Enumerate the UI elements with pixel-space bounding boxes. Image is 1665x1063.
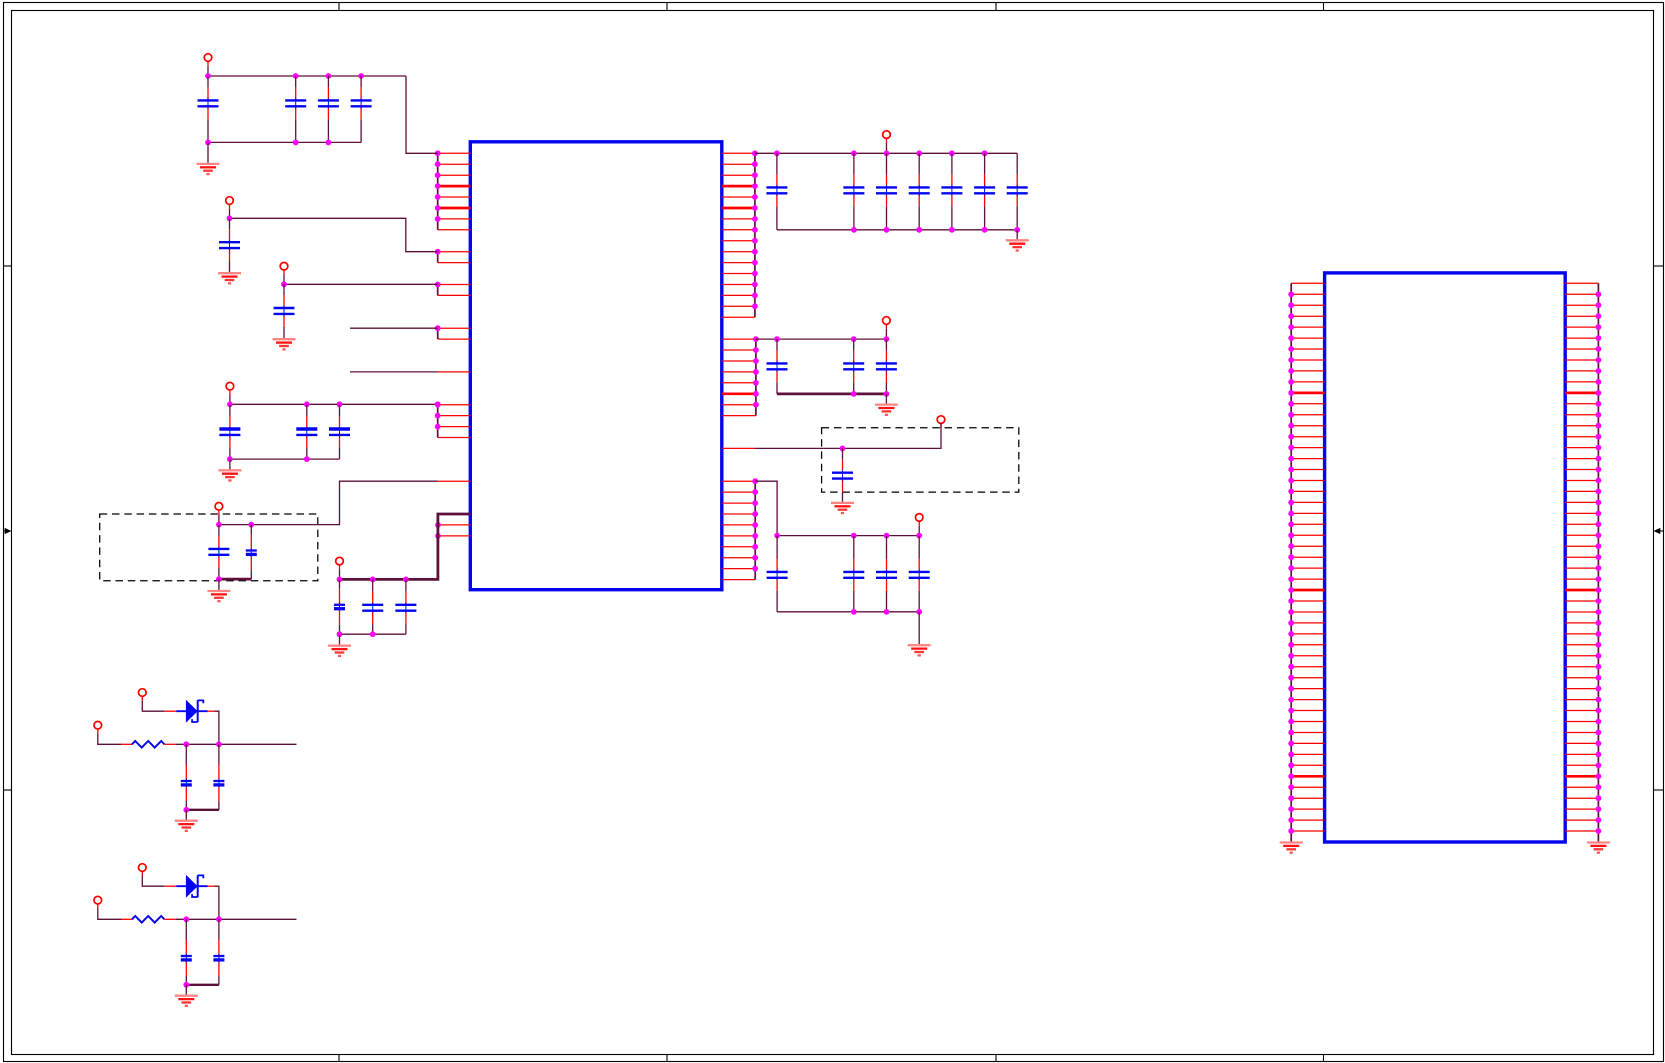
U1 left pin row20 [438, 371, 471, 373]
capacitor C30 [181, 744, 192, 810]
wire VDDA gnd rail [208, 141, 361, 143]
wire to ground [218, 579, 220, 591]
wire to ground [207, 142, 209, 164]
ground [218, 273, 241, 283]
ground [1587, 843, 1610, 853]
wire P6 to node [339, 569, 341, 579]
power symbol P13 [139, 864, 147, 876]
wire PVDD gnd rail [777, 611, 919, 613]
ground [218, 470, 241, 480]
ground [273, 339, 296, 349]
wire net AVDD2 [284, 283, 438, 285]
ground [197, 164, 220, 174]
capacitor C24 [876, 339, 897, 394]
wire net PVDD riser [755, 481, 919, 535]
capacitor C19 [941, 153, 962, 230]
ground [908, 645, 931, 655]
junctions out net [183, 916, 221, 922]
wire resistor feed [98, 909, 122, 920]
ground [1280, 843, 1303, 853]
U1 right pin group H rows17-24 [722, 339, 756, 416]
ground [1006, 240, 1029, 250]
capacitor C15 [766, 153, 787, 230]
U1 left pin group D rows16-17 [438, 328, 471, 339]
wire VDD18 gnd rail [777, 392, 886, 395]
junctions group F [435, 522, 441, 539]
junction AVDD1 [227, 215, 233, 221]
border arrow right [1654, 528, 1664, 534]
junction VFILT [840, 446, 846, 452]
U1 left pin group E rows23-26 [438, 405, 471, 438]
ground [175, 996, 198, 1006]
junctions VDDIO gnd rail [337, 631, 376, 637]
capacitor C33 [213, 919, 224, 985]
wire to ground [185, 985, 187, 996]
U2 right pin bus wire [1597, 283, 1599, 842]
junction group B [435, 249, 441, 255]
junctions DVDD rail [227, 401, 441, 407]
capacitor C7 [219, 404, 240, 459]
U2 left pins rows0-50 [1291, 283, 1324, 831]
dashed option box 1 [100, 514, 318, 581]
wire P7 to node [886, 143, 888, 153]
capacitor C2 [285, 76, 306, 142]
junctions U2 right [1596, 291, 1602, 834]
wire cap gnd rail [186, 984, 219, 986]
capacitor C18 [909, 153, 930, 230]
power symbol P6 [336, 557, 344, 569]
wire to ground [229, 459, 231, 470]
junctions group G [752, 150, 758, 309]
junctions VDDA gnd rail [205, 140, 331, 146]
wire net out [175, 743, 296, 745]
capacitor C21 [1007, 153, 1028, 230]
junctions group I [752, 478, 758, 571]
power symbol P10 [915, 514, 923, 526]
dashed option box 2 [822, 428, 1019, 492]
U1 right pin group G rows0-15 [722, 153, 755, 317]
wire VDDA to U1 pin row0 [406, 76, 438, 153]
capacitor C6 [274, 284, 295, 339]
wire P1 to node [207, 66, 209, 76]
junctions VCC rail [774, 150, 987, 156]
zener diode D1 [176, 700, 207, 723]
resistor R1 [132, 741, 164, 748]
capacitor C29 [909, 536, 930, 612]
wire to ground [1016, 230, 1018, 241]
wire anode feed [142, 701, 164, 711]
capacitor C13 [362, 579, 383, 634]
ground [175, 821, 198, 831]
wire anode feed [142, 876, 164, 886]
junction cap gnd [183, 807, 189, 813]
capacitor C11 [246, 525, 257, 580]
wire P4 to node [229, 395, 231, 405]
cathode lead [208, 885, 215, 887]
resistor R2 [132, 916, 164, 923]
junctions VDDIO [337, 577, 409, 583]
wire to ground [918, 612, 920, 645]
capacitor C23 [843, 339, 864, 394]
wire net VDDA top rail [208, 75, 406, 77]
capacitor C31 [213, 744, 224, 810]
capacitor C16 [843, 153, 864, 230]
wire P8 to node [885, 329, 887, 339]
junctions group H [753, 336, 759, 407]
wire P2 to node [229, 209, 231, 219]
ground [875, 405, 898, 415]
capacitor C25 [832, 448, 853, 503]
power symbol P3 [280, 262, 288, 274]
wire P3 to node [283, 275, 285, 285]
wire net VCC top rail [755, 152, 1017, 154]
capacitor C10 [208, 525, 229, 580]
junctions PVDD gnd rail [851, 609, 922, 615]
power symbol P4 [226, 382, 234, 394]
junctions out net [183, 741, 221, 747]
U1 right pin row27 [722, 447, 755, 449]
capacitor C1 [198, 76, 219, 142]
wire VREF gnd rail [219, 578, 251, 581]
junctions VREF [216, 522, 254, 528]
power symbol P8 [883, 317, 891, 329]
junctions group A [435, 150, 441, 221]
capacitor C8 [296, 404, 317, 459]
wire net DVDD [230, 403, 438, 405]
anode lead [165, 885, 177, 887]
capacitor C22 [767, 339, 788, 394]
junction cap gnd [183, 982, 189, 988]
U1 left pin group A rows0-7 [438, 153, 471, 230]
junctions U2 left [1288, 291, 1294, 834]
junctions VDD18 rail [774, 336, 889, 342]
capacitor C20 [974, 153, 995, 230]
junction group C [435, 282, 441, 288]
junction group D [435, 325, 441, 331]
wire net VDDIO thick [340, 514, 471, 579]
junctions VDD18 gnd rail [851, 391, 890, 397]
wire net VREF [219, 481, 438, 524]
capacitor C5 [219, 218, 240, 273]
power symbol P11 [139, 689, 147, 701]
wire cathode to node [215, 711, 219, 744]
junctions PVDD rail [774, 533, 922, 539]
capacitor C32 [181, 919, 192, 985]
wire net AVDD1 [230, 218, 438, 251]
wire net stub row20 [350, 371, 438, 373]
U2 right pins rows0-50 [1565, 283, 1598, 831]
power symbol P7 [883, 131, 891, 143]
junctions DVDD gnd rail [227, 456, 310, 462]
wire cap gnd rail [186, 809, 219, 811]
wire DVDD gnd rail [230, 458, 340, 460]
capacitor C12 [334, 579, 345, 634]
capacitor C9 [329, 404, 350, 459]
anode lead [165, 710, 177, 712]
power symbol P5 [215, 503, 223, 515]
wire to ground [339, 634, 341, 646]
junction AVDD2 [281, 281, 287, 287]
U1 left pin row30 [438, 480, 471, 482]
wire to ground [185, 810, 187, 821]
ic U2 [1325, 273, 1566, 842]
capacitor C26 [767, 536, 788, 612]
ground [831, 503, 854, 513]
junction VREF gnd [216, 576, 222, 582]
junctions VDDA rail [205, 73, 364, 79]
wire net stub row16 [350, 327, 438, 329]
zener diode D2 [176, 875, 207, 898]
U1 left pin group F rows33-35 [438, 514, 470, 536]
wire resistor feed [98, 734, 122, 745]
capacitor C17 [876, 153, 897, 230]
border arrow left [4, 528, 12, 534]
wire VCC gnd rail [777, 229, 1017, 231]
power symbol P9 [937, 416, 945, 428]
U2 left pin bus wire [1290, 283, 1292, 842]
resistor lead right [164, 918, 175, 920]
capacitor C27 [843, 536, 864, 612]
resistor lead right [164, 743, 175, 745]
junctions group E [435, 402, 441, 430]
junctions VCC gnd rail [851, 227, 1020, 233]
cathode lead [208, 710, 215, 712]
capacitor C3 [318, 76, 339, 142]
resistor lead left [121, 918, 132, 920]
U1 left pin group C rows12-13 [438, 285, 471, 296]
wire P5 to node [218, 515, 220, 525]
ic U1 [470, 142, 722, 590]
capacitor C28 [876, 536, 897, 612]
ground [328, 646, 351, 656]
U1 left pin group B rows9-10 [438, 252, 471, 263]
capacitor C14 [395, 579, 416, 634]
power symbol P2 [226, 197, 234, 209]
wire net out [175, 918, 296, 920]
power symbol P12 [94, 721, 102, 733]
capacitor C4 [351, 76, 372, 142]
resistor lead left [121, 743, 132, 745]
power symbol P1 [204, 54, 212, 66]
wire net VDD18 rail [756, 338, 887, 340]
power symbol P14 [94, 896, 102, 908]
wire VDDIO gnd rail [340, 633, 406, 635]
wire P10 to node [918, 526, 920, 536]
wire cathode to node [215, 886, 219, 919]
ground [207, 591, 230, 601]
wire to ground [885, 394, 887, 405]
U1 right pin group I rows30-39 [722, 481, 755, 579]
wire net VFILT [755, 423, 941, 448]
